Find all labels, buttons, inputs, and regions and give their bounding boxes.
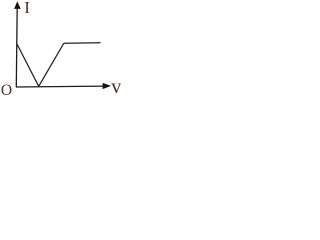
label I (current axis) xyxy=(24,0,30,18)
vertical axis (I axis) xyxy=(15,6,18,87)
label O (origin) xyxy=(1,82,12,100)
curve: rising segment from v axis xyxy=(39,43,64,86)
horizontal axis arrowhead xyxy=(103,83,111,89)
curve: descending segment from I axis to v axis xyxy=(17,44,39,86)
curve: saturation plateau xyxy=(64,42,101,45)
vertical axis arrowhead xyxy=(14,1,21,9)
label v (voltage axis) xyxy=(111,76,121,99)
horizontal axis (v axis) xyxy=(16,85,104,88)
